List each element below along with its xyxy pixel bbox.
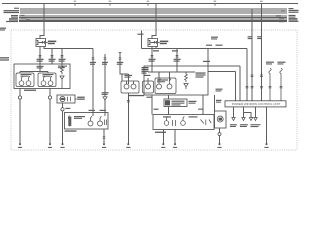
svg-text:POWER WINDOW CONTROL UNIT: POWER WINDOW CONTROL UNIT — [232, 102, 281, 106]
